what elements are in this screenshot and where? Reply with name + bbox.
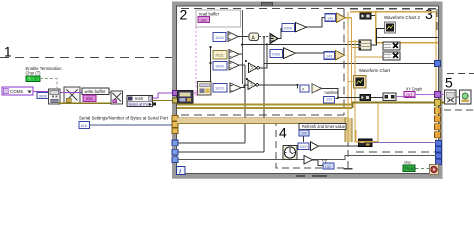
svg-text:x-y: x-y <box>322 158 328 163</box>
wire into timer node <box>338 97 360 99</box>
region 5 error handler icon <box>460 90 472 104</box>
orange stubs into build array <box>348 41 359 43</box>
orange stub from triangle top <box>346 17 352 19</box>
annotation 5 dashed rect <box>444 74 474 111</box>
orange wire top long <box>350 11 436 13</box>
while loop frame <box>172 4 443 179</box>
svg-text:1000: 1000 <box>283 26 292 31</box>
stub row2 <box>239 53 242 55</box>
svg-text:1: 1 <box>4 45 12 60</box>
convert triangle row4 <box>230 83 241 93</box>
wire A to compound <box>259 36 270 38</box>
tan band turns down <box>345 118 352 142</box>
wire multiply out <box>296 52 325 54</box>
svg-text:TRUE: TRUE <box>404 167 415 171</box>
svg-text:number: number <box>325 90 339 95</box>
svg-text:Waveform Chart: Waveform Chart <box>359 68 391 73</box>
wire COM5 to VISA configure <box>33 90 49 92</box>
svg-text:T: T <box>28 77 31 82</box>
bundle node xy <box>383 93 396 101</box>
wire xy to tunnel purple <box>396 96 404 98</box>
thick olive error wire to border <box>352 101 435 103</box>
label Refresh 2nd timer value <box>299 124 346 130</box>
svg-text:2: 2 <box>180 7 188 23</box>
long wire mid to right (row44) <box>242 44 359 46</box>
tunnel orange left (serial settings) <box>172 116 178 122</box>
svg-text:5: 5 <box>445 75 453 91</box>
chart terminal <box>354 76 367 89</box>
svg-text:4: 4 <box>279 125 287 141</box>
divide triangle <box>296 23 307 32</box>
wire timer multiply out <box>319 145 359 147</box>
olive wire outside to region5 <box>441 102 445 104</box>
svg-text:abc: abc <box>86 96 94 101</box>
wire const down <box>303 136 305 142</box>
purple tunnel right <box>435 92 441 98</box>
orange wire bundle1 out to border <box>400 42 438 44</box>
blue tunnel row63 <box>435 61 441 67</box>
wire compound out to divide <box>278 28 281 39</box>
numeric terminal <box>79 122 90 129</box>
wire read to scan <box>193 92 198 94</box>
boolean wire from T constant <box>40 79 57 89</box>
constant row2 (cream) <box>213 51 227 60</box>
stub row3 <box>239 64 245 66</box>
convert triangle row3 <box>229 61 239 71</box>
small conversion box <box>300 85 309 92</box>
svg-text:Instr: Instr <box>135 96 144 101</box>
svg-text:132: 132 <box>325 165 331 169</box>
svg-text:Waveform Chart 2: Waveform Chart 2 <box>384 15 420 20</box>
numeric constant 1000 (timer) <box>298 143 309 150</box>
indicator x-y <box>323 163 334 169</box>
svg-text:Bytes at Port: Bytes at Port <box>129 102 152 106</box>
tunnel yellow left <box>173 98 178 103</box>
multiply triangle (timer) <box>311 142 319 151</box>
boolean triangle T1 <box>249 63 260 73</box>
conversion triangle (number row) <box>312 84 322 93</box>
wire property node to loop (error) <box>153 100 174 102</box>
wire column junction dots <box>209 46 211 48</box>
wire between region5 icons <box>456 96 460 98</box>
svg-text:Char (T): Char (T) <box>26 71 41 76</box>
wire orange into chart <box>348 81 354 83</box>
property node Instr <box>127 96 156 107</box>
small dark node top (to chart2) <box>360 13 371 19</box>
orange U under bundle <box>356 103 378 142</box>
unbundle icon <box>359 40 372 50</box>
stub row4 <box>241 85 248 88</box>
wait until next ms multiple <box>283 146 297 160</box>
svg-text:Serial Settings/Number of Byte: Serial Settings/Number of Bytes at Seria… <box>79 116 169 121</box>
annotation 1 dashed line <box>0 57 172 59</box>
xy graph terminal <box>404 92 415 98</box>
wire from tunnel1 up middle <box>178 142 245 144</box>
error wire lower <box>58 102 111 104</box>
svg-text:7021: 7021 <box>215 53 224 58</box>
orange tunnels right border <box>435 108 441 114</box>
conversion triangle to tunnel (mid) <box>336 51 345 60</box>
svg-text:#16: #16 <box>81 124 87 128</box>
wire from tunnel2 <box>178 151 264 153</box>
annotation 4 dashed rect <box>276 123 348 168</box>
wire property node to loop (visa) <box>153 93 174 98</box>
tunnel purple left <box>173 91 178 96</box>
thick tan band <box>177 118 348 123</box>
VISA Write VI (first) <box>64 87 80 103</box>
wire node to xy bundle <box>371 97 384 99</box>
bundle node 2 <box>383 52 400 60</box>
iteration terminal i <box>177 167 186 176</box>
double yellow band upper <box>177 104 352 106</box>
wire bundle out to tunnel <box>372 142 436 144</box>
numeric constant 100 <box>299 130 309 136</box>
long vertical wire C <box>263 37 265 153</box>
add triangle (timer lower) <box>304 156 313 165</box>
purple wire to region5 <box>441 94 445 96</box>
orange vertical into bundle1 <box>376 12 383 43</box>
VISA Configure Serial Port VI <box>49 89 61 104</box>
wire T2 out long <box>259 85 298 89</box>
wire divide out <box>307 18 326 28</box>
center vertical wire A <box>242 10 244 84</box>
chart 2 terminal <box>385 22 396 33</box>
left lower tunnels <box>172 140 178 146</box>
wire add out <box>313 160 324 166</box>
VISA resource constant COM5 <box>2 87 33 95</box>
boolean triangle T2 <box>248 80 259 90</box>
tunnel top border <box>262 3 273 6</box>
svg-text:write buffer: write buffer <box>85 89 106 94</box>
annotation 3 dashed rect <box>350 9 437 152</box>
VISA Write VI (second) <box>111 91 123 104</box>
wire VISA cfg to write node <box>60 92 111 94</box>
orange wire right vertical <box>435 12 437 140</box>
indicator number <box>324 97 335 104</box>
svg-text:293: 293 <box>406 92 414 97</box>
blue tunnels right border <box>436 141 442 147</box>
svg-text:132: 132 <box>326 97 332 101</box>
region 5 VISA close icon <box>445 90 457 104</box>
svg-text:1004: 1004 <box>215 64 224 69</box>
svg-text:read buffer: read buffer <box>199 12 219 17</box>
wire from scan up the constant column <box>210 46 212 82</box>
wire node out <box>371 15 376 17</box>
pink dashed string wire up <box>195 10 197 97</box>
boolean dashed wire to cond terminal <box>416 167 430 169</box>
svg-text:143: 143 <box>326 54 332 58</box>
annotation 2 dashed rect <box>181 9 344 116</box>
indicator int row mid <box>324 52 335 59</box>
olive tunnel right <box>435 100 441 106</box>
svg-text:3: 3 <box>425 6 433 22</box>
svg-text:1024: 1024 <box>215 35 224 40</box>
svg-text:COM5: COM5 <box>10 89 23 94</box>
indicator int row top <box>325 14 336 21</box>
wire to number indicator <box>322 88 339 98</box>
svg-text:1000: 1000 <box>299 145 307 149</box>
convert triangle row2 <box>229 50 239 60</box>
loop condition terminal <box>430 165 439 175</box>
long wire to right tunnel (row63) <box>264 63 436 65</box>
wire row1 to A node <box>238 36 249 38</box>
bottom border marks <box>296 175 305 177</box>
numeric constant 1000 <box>282 24 295 32</box>
compound arithmetic node <box>270 34 278 44</box>
wire T1 out <box>260 43 268 68</box>
constant row4 <box>213 84 227 93</box>
svg-text:Refresh 2nd timer value: Refresh 2nd timer value <box>302 124 346 129</box>
VISA Read VI <box>178 91 194 104</box>
A rounded node <box>249 33 259 42</box>
svg-text:XY Graph: XY Graph <box>406 87 422 92</box>
svg-text:stop: stop <box>404 160 411 165</box>
orange vertical pair left of chart column <box>347 12 349 142</box>
boolean constant TRUE <box>403 165 415 172</box>
svg-text:7000: 7000 <box>271 52 280 57</box>
svg-text:abc: abc <box>201 17 207 22</box>
label write buffer <box>82 88 109 95</box>
numeric constant row1 <box>213 33 226 42</box>
svg-text:141: 141 <box>327 16 333 20</box>
bundle dark (xy source) <box>359 139 373 147</box>
numeric constant 7000 <box>270 50 283 58</box>
wire build array to chart2 <box>371 29 385 46</box>
orange stub into bundle2 <box>355 56 383 58</box>
read buffer label box <box>196 10 241 27</box>
string indicator abc (read) <box>198 17 210 23</box>
double yellow band lower <box>177 107 352 109</box>
svg-text:9600: 9600 <box>39 94 48 99</box>
multiply triangle <box>284 48 296 59</box>
Scan From String VI <box>198 82 212 96</box>
numeric constant 9600 <box>37 93 49 99</box>
boolean constant T <box>26 76 40 82</box>
bundle node 1 <box>383 42 400 50</box>
svg-text:F: F <box>35 77 38 82</box>
bundle node lower dark <box>360 95 371 101</box>
olive drop below region5 <box>436 105 438 117</box>
center vertical wire B <box>244 65 246 143</box>
wire from tunnel3 long <box>178 156 436 160</box>
wire row 37 to border <box>377 37 439 39</box>
wire terminal to loop <box>90 124 175 126</box>
conversion triangle to tunnel (top) <box>337 13 346 22</box>
convert triangle row1 <box>228 32 238 42</box>
constant row3 <box>213 62 227 71</box>
string constant abc (write) <box>83 95 96 101</box>
svg-text:1023: 1023 <box>215 86 224 91</box>
svg-text:100: 100 <box>301 132 307 136</box>
